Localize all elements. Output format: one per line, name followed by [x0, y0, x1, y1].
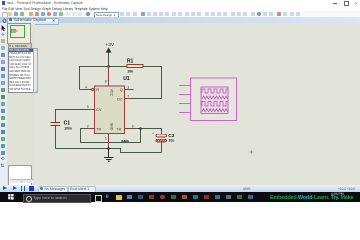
pin 4 R inversion bubble [80, 89, 92, 91]
svg-text:2: 2 [87, 125, 89, 129]
oscilloscope waveforms [202, 89, 228, 112]
list scrollbar [33, 48, 38, 94]
svg-text:U1: U1 [123, 76, 130, 82]
svg-text:3: 3 [127, 85, 129, 89]
orientation preview box [8, 165, 32, 186]
resistor R1 body [127, 64, 143, 67]
canvas background [30, 23, 360, 185]
oscilloscope instrument [179, 78, 236, 120]
resistor R1 [127, 59, 143, 74]
capacitor C1 [51, 121, 72, 149]
IC U1 555 timer [95, 86, 125, 134]
svg-text:GND: GND [109, 123, 113, 131]
svg-text:R: R [96, 88, 99, 92]
capacitor C1 plates [51, 122, 61, 124]
ground [104, 149, 113, 162]
watermark [270, 195, 353, 201]
svg-text:+: + [152, 132, 154, 136]
wire R1 to right corner down to DC [131, 67, 162, 99]
clock [331, 192, 344, 196]
capacitor C2 polarized [152, 132, 175, 153]
svg-text:TR: TR [96, 128, 101, 132]
menu bar [0, 6, 360, 11]
svg-text:TH: TH [116, 128, 121, 132]
wire VCC pin 8 [108, 67, 110, 87]
pin 1 GND stub [108, 134, 110, 149]
wire ground rail [56, 149, 162, 153]
toolbar [0, 11, 360, 18]
search box [23, 194, 91, 203]
node junction at power rail [108, 65, 110, 67]
svg-text:+3V: +3V [105, 42, 114, 48]
device list header [8, 43, 32, 49]
node junction TR/TH [139, 127, 141, 129]
schematic canvas [30, 23, 360, 185]
svg-text:CV: CV [96, 108, 102, 112]
svg-text:10u: 10u [169, 139, 175, 143]
side panel [7, 23, 35, 185]
svg-text:6: 6 [132, 125, 134, 129]
svg-text:5: 5 [87, 105, 89, 109]
node junction ground [107, 147, 109, 149]
svg-text:10k: 10k [127, 70, 133, 74]
start button [8, 194, 14, 200]
svg-text:100n: 100n [64, 126, 72, 130]
origin marker [250, 150, 254, 154]
svg-text:Q: Q [120, 88, 123, 92]
left icon strip [0, 23, 7, 185]
pin 7 DC stub [125, 98, 134, 100]
power +3V symbol [105, 42, 114, 67]
svg-text:4: 4 [85, 85, 87, 89]
svg-text:555: 555 [121, 139, 129, 144]
tab bar [0, 17, 360, 23]
svg-text:R1: R1 [127, 59, 134, 65]
device list [8, 48, 35, 94]
pin 5 CV wire to C1 [88, 109, 95, 111]
minimap overview [7, 23, 31, 44]
status bar [0, 185, 360, 192]
title bar [0, 0, 360, 6]
svg-text:VCC: VCC [109, 89, 113, 97]
svg-text:1: 1 [105, 136, 107, 140]
svg-text:8: 8 [105, 80, 107, 84]
svg-text:7: 7 [127, 95, 129, 99]
pin 3 Q stub [125, 89, 134, 91]
svg-text:DC: DC [117, 98, 123, 102]
windows taskbar [0, 192, 360, 202]
pin 6 TH wire to C2 [125, 128, 134, 130]
wire top rail [80, 67, 128, 90]
pin 2 TR wire [88, 128, 95, 130]
